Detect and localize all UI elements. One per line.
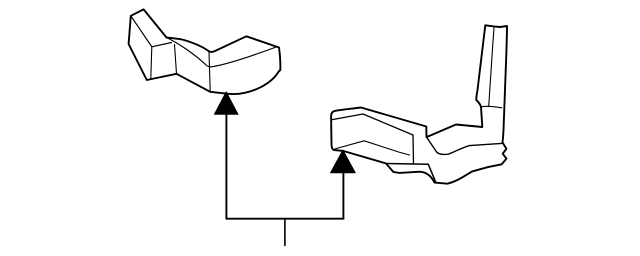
right part: box inner top edge <box>332 114 413 135</box>
right part: arm crease <box>489 28 494 107</box>
left bumper beam part: outer silhouette <box>129 9 281 94</box>
right part: box bottom lip line <box>335 141 410 155</box>
left part: crease 1 <box>151 47 152 79</box>
right part: box end-cap vertical edge <box>412 135 415 164</box>
left part: crease 2 <box>175 45 177 74</box>
left arrow head <box>214 92 238 114</box>
left part: crease 3 at bend <box>209 52 210 92</box>
left part: front-top edge (interior) <box>167 38 278 67</box>
right arrow head <box>331 150 356 173</box>
right arrow stem <box>342 172 344 218</box>
right bracket part: outer silhouette <box>331 25 507 183</box>
right part: step floor front edge (check mark) <box>427 137 502 154</box>
center leader stub <box>284 219 286 246</box>
right part: lower body edge and V notch <box>386 164 436 183</box>
left arrow stem <box>225 114 227 219</box>
right part: arm fold line <box>481 106 502 108</box>
left part: front-top-left edge B to T1 <box>131 16 172 47</box>
connector horizontal line <box>226 218 343 220</box>
